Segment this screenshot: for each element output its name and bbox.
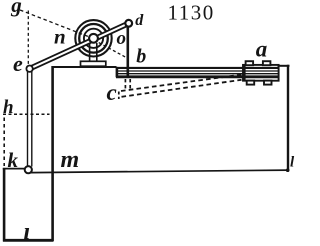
svg-text:c: c bbox=[107, 80, 117, 105]
svg-text:l: l bbox=[290, 154, 295, 170]
svg-text:d: d bbox=[135, 12, 144, 29]
svg-text:g: g bbox=[10, 0, 21, 17]
svg-text:n: n bbox=[54, 25, 66, 49]
svg-text:1130: 1130 bbox=[168, 0, 215, 24]
svg-text:ı: ı bbox=[24, 219, 31, 245]
svg-text:m: m bbox=[61, 147, 80, 173]
svg-text:b: b bbox=[136, 45, 146, 67]
svg-text:h: h bbox=[3, 97, 14, 118]
svg-text:a: a bbox=[256, 37, 267, 62]
svg-text:k: k bbox=[8, 148, 19, 172]
svg-text:o: o bbox=[117, 28, 127, 49]
svg-text:e: e bbox=[13, 51, 23, 76]
